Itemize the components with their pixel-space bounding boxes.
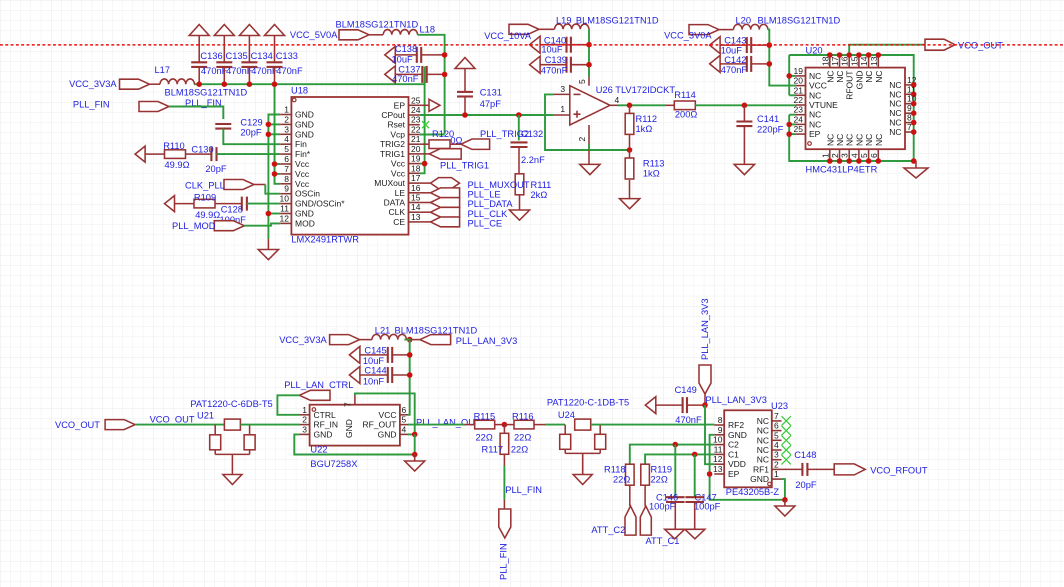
wire output node — [618, 104, 667, 106]
svg-text:BGU7258X: BGU7258X — [310, 459, 357, 469]
svg-text:NC: NC — [835, 71, 845, 83]
U23 right pin 4 NC — [772, 449, 782, 451]
resistor R112 1k ohm — [629, 105, 631, 113]
resistor R120 0 ohm — [420, 143, 429, 145]
svg-text:GND: GND — [314, 429, 333, 439]
U20 right pin 10 NC — [905, 103, 914, 105]
wire R114 to VTUNE — [695, 104, 796, 106]
svg-text:22Ω: 22Ω — [476, 433, 493, 443]
wire Vcc pins 18,19 vertical from C137 node — [420, 67, 425, 174]
svg-text:4: 4 — [849, 153, 859, 158]
power port VCC_5V0A arrow above C134 — [248, 36, 250, 63]
svg-text:R112: R112 — [636, 114, 658, 124]
svg-text:R111: R111 — [531, 180, 552, 190]
capacitor C134 470nF — [241, 61, 257, 63]
U18 right pin 20 TRIG1 — [409, 153, 420, 155]
svg-text:C139: C139 — [545, 55, 567, 65]
ground at U20 — [915, 161, 917, 168]
U18 right pin 22 Vcp — [409, 134, 420, 136]
wire port to C149 node — [704, 394, 706, 405]
svg-text:1: 1 — [820, 153, 830, 158]
svg-text:OSCin: OSCin — [295, 189, 320, 199]
U18 left pin 6 Vcc — [280, 163, 291, 165]
svg-text:R115: R115 — [474, 412, 496, 422]
wire L20 down to U20 VCC pin 20 — [768, 30, 796, 86]
svg-text:16: 16 — [840, 56, 850, 66]
svg-text:10: 10 — [280, 194, 290, 204]
U18 left pin 8 Vcc — [280, 183, 291, 185]
svg-text:CPout: CPout — [381, 110, 405, 120]
svg-text:18: 18 — [820, 56, 830, 66]
U22 right pin 6 VCC — [400, 414, 408, 416]
resistor R117 22 ohm — [503, 425, 505, 434]
wire PLL_MOD to MOD pin12 — [244, 223, 280, 225]
svg-text:PLL_TRIG1: PLL_TRIG1 — [440, 161, 489, 171]
svg-text:C130: C130 — [191, 144, 213, 154]
wire C128 to GND/OSCin* pin10 — [247, 203, 280, 205]
svg-text:C148: C148 — [794, 450, 816, 460]
no-connect X on U23 pin 7 — [782, 416, 791, 425]
junction C143 — [767, 42, 773, 48]
U18 left pin 11 GND — [280, 213, 291, 215]
svg-text:C135: C135 — [226, 51, 248, 61]
svg-text:5: 5 — [774, 430, 779, 440]
U18 right pin 17 MUXout — [409, 182, 420, 184]
svg-text:15: 15 — [849, 56, 859, 66]
svg-text:19: 19 — [411, 154, 421, 164]
svg-text:7: 7 — [774, 411, 779, 421]
U23 left pin 8 RF2 — [714, 424, 724, 426]
U20 left pin 24 NC — [796, 123, 806, 125]
svg-text:EP: EP — [809, 129, 821, 139]
svg-text:PAT1220-C-6DB-T5: PAT1220-C-6DB-T5 — [190, 399, 272, 409]
wire R116 to U24 — [545, 424, 565, 426]
wire VCO_OUT to U21 — [135, 424, 224, 426]
svg-text:24: 24 — [794, 114, 804, 124]
wire PLL_LAN_CTRL to CTRL pin1 — [277, 395, 300, 415]
wire RFOUT to VCO_OUT port — [849, 45, 925, 55]
capacitor C137 470nF with arrow — [385, 66, 396, 83]
svg-text:4: 4 — [402, 424, 407, 434]
junction C144 — [407, 372, 413, 378]
svg-text:TRIG2: TRIG2 — [380, 139, 405, 149]
junction GND pin3 — [266, 132, 272, 138]
U18 left pin 12 MOD — [280, 222, 291, 224]
svg-text:NC: NC — [835, 134, 845, 146]
svg-text:1kΩ: 1kΩ — [636, 124, 653, 134]
svg-text:L21: L21 — [375, 326, 391, 336]
svg-text:PLL_LAN_3V3: PLL_LAN_3V3 — [456, 336, 518, 346]
svg-text:GND: GND — [854, 71, 864, 90]
port VCO_OUT (top right) — [925, 39, 955, 50]
svg-text:19: 19 — [794, 66, 804, 76]
wire R119 to ATT_C1 port — [644, 485, 646, 506]
svg-text:PLL_LAN_CTRL: PLL_LAN_CTRL — [284, 380, 353, 390]
U23 right pin 3 NC — [772, 459, 782, 461]
svg-text:22Ω: 22Ω — [514, 433, 531, 443]
U20 top pin 16 RFOUT — [848, 55, 850, 68]
svg-text:22Ω: 22Ω — [651, 475, 668, 485]
resistor R119 22 ohm — [641, 464, 650, 485]
U20 right pin 12 NC — [905, 84, 914, 86]
svg-text:18: 18 — [411, 163, 421, 173]
svg-text:10nF: 10nF — [363, 377, 385, 387]
U18 left pin 3 GND — [280, 133, 291, 135]
capacitor C129 20pF — [215, 123, 231, 125]
svg-text:5: 5 — [577, 79, 587, 84]
resistor R114 200 ohm — [666, 104, 674, 106]
power arrow right at EP pin25 — [420, 104, 429, 106]
resistor R115 22 ohm — [464, 424, 475, 426]
U20 top pin 14 NC — [868, 55, 870, 68]
svg-text:10uF: 10uF — [541, 45, 563, 55]
ground below U24 — [573, 475, 592, 485]
U23 left pin 10 C2 — [714, 444, 724, 446]
ground below U23 — [784, 500, 786, 506]
svg-text:23: 23 — [411, 115, 421, 125]
junction C139 — [586, 62, 592, 68]
svg-text:NC: NC — [864, 71, 874, 83]
U20 right pin 8 NC — [905, 122, 914, 124]
svg-text:LMX2491RTWR: LMX2491RTWR — [291, 235, 359, 245]
svg-text:470nF: 470nF — [721, 65, 748, 75]
op-amp pin 4 output — [610, 104, 621, 106]
svg-text:C129: C129 — [240, 118, 262, 128]
junction Vcc pin7 — [272, 171, 278, 177]
U20 right pin 11 NC — [905, 93, 914, 95]
junction R117 — [502, 422, 508, 428]
svg-text:NC: NC — [864, 134, 874, 146]
inductor L17 BLM18SG121TN1D — [160, 79, 194, 84]
port PLL_MUXOUT — [420, 182, 431, 184]
wire C2 line pin10 — [630, 445, 715, 465]
svg-text:470nF: 470nF — [276, 66, 303, 76]
svg-text:R119: R119 — [651, 465, 673, 475]
svg-text:NC: NC — [809, 110, 821, 120]
port VCO_RFOUT — [834, 464, 865, 475]
svg-text:7: 7 — [907, 122, 912, 132]
U20 bottom pin 6 NC — [877, 149, 879, 161]
wire GND pin9 to EP — [710, 435, 785, 500]
svg-text:HMC431LP4ETR: HMC431LP4ETR — [806, 165, 878, 175]
svg-text:C1: C1 — [728, 449, 739, 459]
power port VCC_5V0A arrow above C135 — [223, 36, 225, 63]
junction C135 at bus — [222, 81, 228, 87]
svg-text:2.2nF: 2.2nF — [521, 155, 545, 165]
port PLL_CE — [420, 221, 431, 223]
svg-text:6: 6 — [284, 154, 289, 164]
U20 right pin 7 NC — [905, 131, 914, 133]
svg-text:VCO_OUT: VCO_OUT — [55, 420, 100, 430]
svg-text:VCC: VCC — [809, 81, 827, 91]
junction C140 — [586, 42, 592, 48]
svg-text:13: 13 — [411, 212, 421, 222]
U18 left pin 7 Vcc — [280, 173, 291, 175]
wire U24 to U23 RF2 — [591, 424, 715, 426]
svg-text:BLM18SG121TN1D: BLM18SG121TN1D — [576, 15, 659, 25]
svg-text:MOD: MOD — [295, 218, 315, 228]
svg-text:U24: U24 — [558, 410, 575, 420]
svg-text:VCC_3V3A: VCC_3V3A — [279, 335, 327, 345]
U20 right pin 9 NC — [905, 112, 914, 114]
svg-text:2: 2 — [284, 114, 289, 124]
svg-text:7: 7 — [343, 402, 353, 407]
U18 right pin 14 CLK — [409, 211, 420, 213]
U22 right pin 4 GND — [400, 433, 408, 435]
U20 top pin 15 GND — [858, 55, 860, 68]
svg-text:3: 3 — [284, 124, 289, 134]
wire U21 to U22 RF_IN — [240, 424, 300, 426]
junction C138 — [442, 52, 448, 58]
svg-text:GND: GND — [750, 474, 769, 484]
svg-text:RF2: RF2 — [728, 420, 744, 430]
svg-text:RFOUT: RFOUT — [845, 71, 855, 100]
port PLL_MOD — [214, 221, 244, 231]
capacitor C132 2.2nF — [518, 115, 520, 140]
junction GND pin2 — [266, 122, 272, 128]
dotted red analog boundary line — [0, 44, 1064, 46]
U18 left pin 4 Fin — [280, 143, 291, 145]
svg-text:GND: GND — [378, 429, 397, 439]
svg-text:NC: NC — [854, 134, 864, 146]
svg-text:L17: L17 — [155, 65, 171, 75]
wire Vcc drop to U18 pins 6,7,8 — [275, 84, 281, 184]
U22 left pin 1 CTRL — [300, 414, 310, 416]
svg-text:VCC_10VA: VCC_10VA — [484, 31, 532, 41]
IC U20 HMC431LP4ETR — [806, 68, 906, 150]
svg-text:R114: R114 — [674, 90, 696, 100]
svg-text:49.9Ω: 49.9Ω — [165, 160, 190, 170]
svg-text:4: 4 — [774, 440, 779, 450]
svg-text:NC: NC — [757, 455, 769, 465]
junction pin19 rail — [786, 73, 792, 79]
svg-text:11: 11 — [280, 204, 289, 214]
svg-text:U20: U20 — [806, 46, 823, 56]
ground below C146 — [665, 529, 685, 539]
wire port to L18 — [369, 34, 383, 36]
power port VCC_5V0A arrow above C133 — [274, 36, 276, 63]
svg-text:NC: NC — [874, 134, 884, 146]
wire GND rail pins 1,2,3,11 to ground — [268, 115, 280, 240]
svg-text:2kΩ: 2kΩ — [531, 190, 548, 200]
svg-text:VDD: VDD — [728, 459, 746, 469]
svg-text:NC: NC — [757, 445, 769, 455]
junction C142 — [767, 61, 773, 67]
wire C1 line pin11 — [645, 454, 714, 464]
capacitor C138 10uF with arrow — [385, 46, 396, 63]
svg-text:24: 24 — [411, 105, 421, 115]
svg-text:GND: GND — [295, 119, 314, 129]
svg-text:10uF: 10uF — [363, 356, 385, 366]
no-connect X on U23 pin 4 — [782, 445, 791, 454]
svg-text:PLL_FIN: PLL_FIN — [505, 485, 542, 495]
svg-text:U22: U22 — [310, 444, 327, 454]
svg-text:VCO_RFOUT: VCO_RFOUT — [870, 466, 928, 476]
svg-text:NC: NC — [757, 435, 769, 445]
svg-text:21: 21 — [411, 134, 421, 144]
ground below C141 — [743, 126, 745, 164]
svg-text:RF_IN: RF_IN — [314, 420, 339, 430]
svg-text:8: 8 — [284, 174, 289, 184]
svg-text:DATA: DATA — [384, 198, 406, 208]
svg-text:NC: NC — [889, 127, 901, 137]
port PLL_TRIG1 — [420, 153, 430, 155]
svg-text:VCC_5V0A: VCC_5V0A — [290, 30, 338, 40]
junction C136 at bus — [196, 81, 202, 87]
svg-text:20: 20 — [411, 144, 421, 154]
wire NC pins 19,21 to left rail — [789, 75, 796, 77]
svg-text:C149: C149 — [675, 385, 697, 395]
U20 top pin 18 NC — [829, 55, 831, 68]
op-amp pin 3 inverting input — [553, 93, 569, 95]
port VCC_3V0A — [689, 25, 719, 35]
svg-text:3: 3 — [302, 424, 307, 434]
svg-text:220pF: 220pF — [757, 124, 784, 134]
svg-text:RF1: RF1 — [753, 464, 769, 474]
svg-text:L18: L18 — [420, 25, 436, 35]
svg-text:8: 8 — [718, 415, 723, 425]
U20 left pin 22 VTUNE — [796, 104, 806, 106]
U18 right pin 25 EP — [409, 104, 420, 106]
svg-text:U26 TLV172IDCKT: U26 TLV172IDCKT — [596, 85, 676, 95]
wire CLK_PLL to OSCin pin9 — [254, 184, 265, 186]
U20 left pin 21 NC — [796, 94, 806, 96]
U20 bottom pin 1 NC — [829, 149, 831, 161]
svg-text:20pF: 20pF — [795, 480, 817, 490]
svg-text:14: 14 — [411, 202, 421, 212]
U18 right pin 19 Vcc — [409, 163, 420, 165]
svg-text:L19: L19 — [556, 15, 572, 25]
wire L18 to Vcp pin 22 vertical — [418, 35, 445, 134]
svg-text:MUXout: MUXout — [374, 178, 405, 188]
svg-text:22: 22 — [794, 95, 804, 105]
ground below R113 — [629, 180, 631, 199]
svg-text:5: 5 — [284, 144, 289, 154]
U22 left pin 3 GND — [300, 433, 310, 435]
junction U22 bottom rail — [412, 452, 418, 458]
IC U23 PE43205B-Z — [724, 410, 772, 487]
svg-text:R117: R117 — [482, 444, 504, 454]
capacitor C145 10uF with arrow — [349, 346, 360, 363]
capacitor C135 470nF — [216, 61, 232, 63]
svg-text:NC: NC — [757, 426, 769, 436]
wire C130 to Fin* pin5 — [217, 153, 281, 155]
inductor L18 BLM18SG121TN1D — [383, 30, 417, 35]
svg-text:PLL_FIN: PLL_FIN — [73, 100, 110, 110]
junction C145 — [407, 352, 413, 358]
svg-text:NC: NC — [825, 134, 835, 146]
svg-text:PE43205B-Z: PE43205B-Z — [726, 487, 780, 497]
junction GND pin11 — [266, 211, 272, 217]
inductor L21 BLM18SG121TN1D — [372, 334, 406, 339]
ground below U22 — [414, 455, 416, 462]
U23 right pin 5 NC — [772, 439, 782, 441]
svg-text:GND: GND — [295, 129, 314, 139]
svg-text:GND: GND — [295, 209, 314, 219]
junction Vcc pin19 — [422, 161, 428, 167]
resistor R116 22 ohm — [504, 424, 514, 426]
wire U22 gnd rail to ground — [414, 434, 416, 454]
junction C134 at bus — [247, 81, 253, 87]
wire PLL_FIN to C129 — [169, 107, 223, 120]
svg-text:Vcc: Vcc — [391, 168, 406, 178]
svg-text:11: 11 — [714, 444, 723, 454]
svg-text:Vcc: Vcc — [295, 179, 310, 189]
capacitor C141 220pF — [743, 105, 745, 121]
junction C149 PLL_LAN_3V3 — [702, 402, 708, 408]
svg-text:200Ω: 200Ω — [675, 110, 698, 120]
svg-text:C144: C144 — [364, 366, 386, 376]
svg-text:4: 4 — [615, 95, 620, 105]
U18 right pin 13 CE — [409, 221, 420, 223]
inductor L20 BLM18SG121TN1D — [734, 24, 768, 29]
svg-text:25: 25 — [411, 95, 421, 105]
svg-text:BLM18SG121TN1D: BLM18SG121TN1D — [758, 15, 841, 25]
wire R118 to ATT_C2 port — [629, 485, 631, 506]
svg-text:CTRL: CTRL — [314, 410, 336, 420]
svg-text:10uF: 10uF — [392, 54, 414, 64]
capacitor C143 10uF with arrow — [710, 37, 721, 54]
svg-text:25: 25 — [794, 124, 804, 134]
svg-text:C143: C143 — [724, 36, 746, 46]
svg-text:EP: EP — [394, 100, 406, 110]
svg-text:VCO_OUT: VCO_OUT — [150, 414, 195, 424]
ground below U18 — [267, 239, 269, 250]
svg-text:PLL_CLK: PLL_CLK — [468, 209, 509, 219]
svg-text:Fin*: Fin* — [295, 149, 311, 159]
junction pin25 rail — [786, 131, 792, 137]
svg-text:PLL_LAN_3V3: PLL_LAN_3V3 — [705, 395, 767, 405]
svg-text:PLL_DATA: PLL_DATA — [468, 199, 514, 209]
svg-text:CLK: CLK — [388, 207, 405, 217]
svg-text:14: 14 — [859, 56, 869, 66]
port ATT_C2 — [625, 506, 636, 535]
IC U18 LMX2491RTWR — [291, 97, 408, 235]
svg-text:PLL_LE: PLL_LE — [468, 189, 501, 199]
svg-text:C133: C133 — [276, 51, 298, 61]
svg-text:4: 4 — [284, 134, 289, 144]
U18 left pin 1 GND — [280, 114, 291, 116]
wire feedback loop to pin 3 — [545, 94, 630, 150]
no-connect X on U23 pin 6 — [782, 426, 791, 435]
no-connect X on Rset pin23 — [422, 121, 429, 128]
no-connect X on U23 pin 3 — [782, 455, 791, 464]
U18 left pin 2 GND — [280, 123, 291, 125]
svg-text:NC: NC — [889, 99, 901, 109]
port PLL_LAN_3V3 (at L21) — [410, 339, 420, 341]
svg-text:22Ω: 22Ω — [613, 475, 630, 485]
svg-text:7: 7 — [284, 164, 289, 174]
U20 left pin 23 NC — [796, 114, 806, 116]
svg-text:10: 10 — [713, 435, 723, 445]
port PLL_CLK — [420, 211, 431, 213]
svg-text:47pF: 47pF — [480, 99, 502, 109]
U20 top pin 13 NC — [877, 55, 879, 68]
svg-text:Rset: Rset — [388, 120, 406, 130]
junction C147 — [692, 452, 698, 458]
U18 right pin 21 TRIG2 — [409, 143, 420, 145]
svg-text:C131: C131 — [480, 88, 502, 98]
svg-text:NC: NC — [809, 71, 821, 81]
svg-text:PAT1220-C-1DB-T5: PAT1220-C-1DB-T5 — [547, 398, 629, 408]
svg-text:ATT_C2: ATT_C2 — [591, 525, 625, 535]
svg-text:20pF: 20pF — [240, 127, 262, 137]
port CLK_PLL — [224, 180, 254, 190]
capacitor C142 470nF with arrow — [710, 55, 721, 72]
svg-text:49.9Ω: 49.9Ω — [195, 210, 220, 220]
U23 left pin 9 GND — [714, 434, 724, 436]
U20 bottom pin 2 NC — [839, 149, 841, 161]
